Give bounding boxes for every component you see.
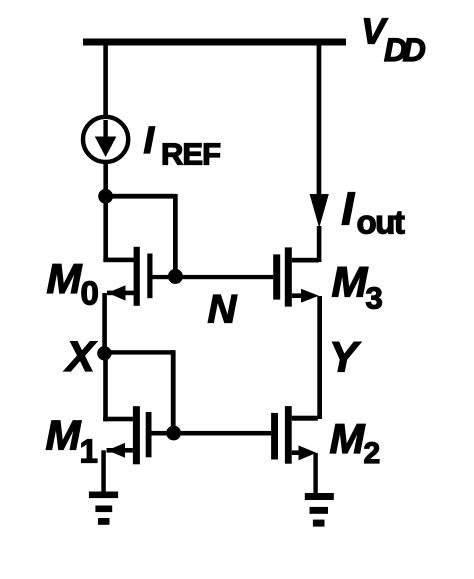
svg-text:3: 3 (366, 281, 383, 316)
svg-text:I: I (341, 182, 355, 234)
svg-text:DD: DD (384, 32, 426, 68)
svg-text:out: out (357, 204, 405, 241)
svg-text:2: 2 (364, 437, 381, 470)
svg-text:N: N (208, 288, 238, 332)
svg-text:M: M (46, 412, 82, 459)
svg-text:M: M (330, 415, 366, 462)
svg-text:0: 0 (81, 275, 99, 312)
svg-text:Y: Y (329, 333, 361, 381)
svg-text:I: I (144, 120, 156, 162)
svg-text:REF: REF (161, 137, 220, 172)
svg-text:M: M (47, 255, 83, 302)
svg-text:X: X (64, 333, 97, 381)
svg-text:M: M (332, 259, 369, 307)
svg-text:1: 1 (80, 433, 98, 470)
